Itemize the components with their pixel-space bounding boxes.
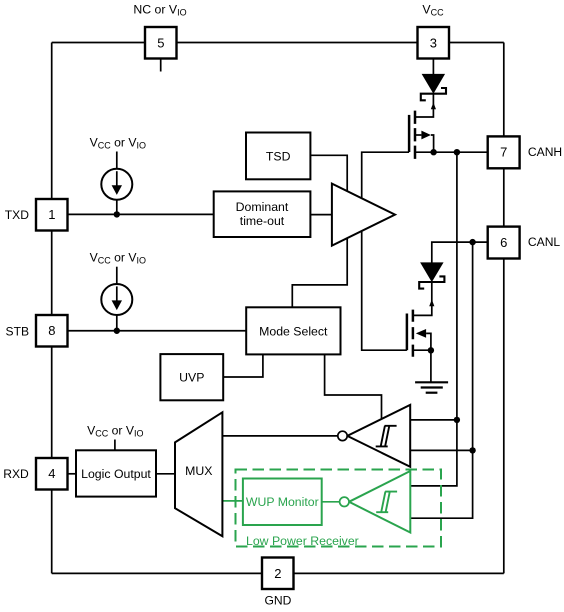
node: PMOS body-source tie: [430, 149, 436, 155]
svg-text:WUP Monitor: WUP Monitor: [246, 495, 319, 509]
wire: top border (pin5 to pin3 net): [52, 42, 504, 44]
svg-text:VCC: VCC: [422, 2, 444, 17]
ground: [415, 382, 448, 392]
svg-text:MUX: MUX: [185, 464, 212, 478]
wire: VCC/VIO stub to Logic Output: [114, 440, 116, 451]
svg-text:GND: GND: [264, 594, 291, 608]
wire: CANH sense line A down to LP receiver: [410, 152, 457, 486]
pin 1: [36, 199, 68, 231]
wire: pin 5 NC stub: [160, 59, 162, 72]
wire: NMOS source to ground: [430, 350, 432, 381]
current source I2 (STB pull-up): [101, 267, 132, 331]
svg-text:7: 7: [500, 145, 507, 160]
hysteresis symbol (green): [376, 492, 397, 513]
svg-text:VCC or VIO: VCC or VIO: [87, 423, 143, 438]
wire: Dominant time-out to driver input: [310, 214, 332, 216]
svg-text:TXD: TXD: [5, 208, 29, 222]
block: WUP Monitor: [243, 479, 322, 526]
diode D1 (upper clamp): [421, 74, 446, 100]
pin 6: [488, 227, 520, 259]
svg-text:Low Power Receiver: Low Power Receiver: [246, 534, 359, 548]
pin 3: [418, 27, 450, 59]
svg-text:5: 5: [157, 35, 164, 50]
svg-text:UVP: UVP: [179, 371, 204, 385]
svg-text:3: 3: [430, 35, 437, 50]
pin 4: [36, 458, 68, 490]
op-amp U3 (low power wake receiver): [340, 471, 411, 533]
svg-text:time-out: time-out: [240, 214, 285, 228]
wire: TXD net to Dominant time-out: [68, 213, 214, 215]
inverting bubble: [338, 431, 347, 440]
svg-text:VCC or VIO: VCC or VIO: [90, 135, 146, 150]
wire: lower diode cathode to NMOS drain: [413, 282, 432, 316]
wire: MUX to receiver output bubble: [222, 435, 337, 437]
svg-text:TSD: TSD: [266, 150, 291, 164]
svg-text:RXD: RXD: [3, 467, 29, 481]
block: Dominant time-out: [214, 191, 311, 237]
svg-text:Logic Output: Logic Output: [81, 467, 151, 481]
hysteresis symbol: [376, 426, 397, 447]
svg-text:VCC or VIO: VCC or VIO: [90, 251, 146, 266]
block: TSD: [246, 133, 310, 180]
block: MUX: [175, 412, 222, 536]
pin 8: [36, 315, 68, 347]
svg-text:8: 8: [48, 323, 55, 338]
wire: receiver CANH input: [410, 419, 457, 421]
node: upper drain link arrow: [431, 103, 436, 110]
pin 7: [488, 136, 520, 168]
wire: MUX to WUP Monitor (green): [222, 500, 243, 502]
node: CANH sense tap: [454, 149, 460, 155]
node: STB junction: [114, 328, 120, 334]
wire: upper diode cathode to PMOS drain: [415, 94, 433, 117]
wire: bottom border (GND net): [52, 572, 504, 574]
transistor Q1 (high-side MOSFET): [409, 111, 434, 159]
wire: driver gate net (upper gate to lower gate): [362, 152, 409, 350]
low power receiver dashed boundary: [236, 470, 442, 547]
block: UVP: [160, 354, 223, 400]
node: receiver CANH input tap: [454, 417, 460, 423]
wire: pin 3 to upper diode anode: [432, 59, 434, 75]
node: TXD junction: [114, 211, 120, 217]
node: lower drain link arrow: [429, 300, 434, 307]
svg-text:CANH: CANH: [528, 145, 562, 159]
svg-text:6: 6: [500, 235, 507, 250]
wire: TSD output down to Mode Select: [292, 155, 347, 307]
op-amp U1 (CAN driver): [332, 184, 395, 246]
wire: receiver CANL input: [410, 449, 472, 451]
transistor Q2 (low-side MOSFET): [407, 310, 431, 357]
wire: STB net to Mode Select: [68, 330, 247, 332]
current source I1 (TXD pull-up): [101, 152, 132, 215]
wire: WUP Monitor to LP receiver bubble (green): [322, 501, 340, 503]
block: Logic Output: [76, 450, 156, 496]
wire: Mode Select to receiver enable: [325, 354, 382, 419]
inverting bubble (green): [340, 497, 349, 506]
wire: Logic Output to MUX: [156, 473, 175, 475]
node: NMOS body-source tie: [428, 347, 434, 353]
op-amp U2 (main receiver): [338, 405, 410, 467]
node: CANL sense tap: [469, 239, 475, 245]
svg-text:STB: STB: [6, 324, 30, 338]
svg-text:1: 1: [48, 207, 55, 222]
block: Mode Select: [246, 307, 340, 354]
wire: right border (VCC to CANH/CANL rail): [503, 43, 505, 574]
wire: PMOS source to pin 7 CANH net: [415, 151, 488, 153]
wire: left border (TXD/STB/RXD rail): [51, 43, 53, 574]
svg-text:CANL: CANL: [528, 235, 561, 249]
svg-text:NC or VIO: NC or VIO: [133, 2, 186, 17]
wire: RXD net to Logic Output: [68, 473, 77, 475]
svg-text:4: 4: [48, 466, 55, 481]
diode D2 (lower clamp): [419, 263, 444, 289]
wire: UVP to Mode Select: [223, 354, 263, 377]
pin 2: [262, 558, 294, 590]
svg-text:2: 2: [274, 566, 281, 581]
node: receiver CANL input tap: [469, 447, 475, 453]
wire: CANL sense line B down to LP receiver: [410, 242, 472, 518]
svg-text:Dominant: Dominant: [236, 200, 289, 214]
pin 5: [145, 27, 177, 59]
wire: pin 6 CANL net to lower diode: [432, 242, 488, 263]
svg-text:Mode Select: Mode Select: [259, 324, 328, 338]
